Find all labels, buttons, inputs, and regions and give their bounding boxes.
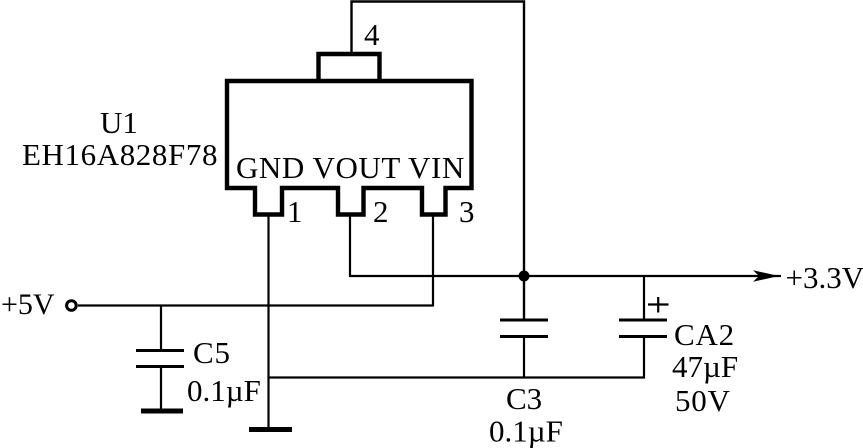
+5V input terminal circle <box>67 301 77 311</box>
wire CA2 top stub <box>643 276 645 319</box>
svg-text:4: 4 <box>364 17 380 52</box>
svg-text:+5V: +5V <box>1 288 55 321</box>
svg-text:C3: C3 <box>506 381 542 416</box>
svg-text:EH16A828F78: EH16A828F78 <box>22 137 218 172</box>
svg-text:3: 3 <box>459 194 475 229</box>
svg-text:0.1µF: 0.1µF <box>187 373 261 408</box>
svg-text:47µF: 47µF <box>672 349 738 384</box>
wire C3 bottom stub <box>523 338 525 378</box>
svg-text:U1: U1 <box>100 105 138 140</box>
wire pin2 VOUT down and right to +3.3V arrow <box>350 214 781 276</box>
ground symbol C5 <box>141 409 183 414</box>
svg-text:50V: 50V <box>675 383 731 418</box>
svg-text:CA2: CA2 <box>674 317 735 352</box>
wire pin3 VIN down to +5V rail <box>432 214 434 307</box>
op-amp U1 body EH16A828F78 with pin notches <box>227 81 472 215</box>
wire pin1 GND down to ground <box>267 214 269 427</box>
svg-text:1: 1 <box>287 194 303 229</box>
wire pin4 tab to top rail and down to VOUT node <box>352 2 525 319</box>
wire C5 bottom stub <box>160 367 162 409</box>
svg-text:C5: C5 <box>193 335 231 370</box>
arrow head +3.3V output <box>753 270 779 281</box>
svg-text:0.1µF: 0.1µF <box>489 414 563 448</box>
capacitor CA2 electrolytic <box>619 320 667 337</box>
svg-text:2: 2 <box>373 194 389 229</box>
wire +5V rail to VIN <box>78 304 433 306</box>
ground symbol main <box>249 427 292 432</box>
svg-text:GND VOUT VIN: GND VOUT VIN <box>236 150 465 185</box>
capacitor C3 <box>500 320 548 337</box>
capacitor C5 <box>136 351 184 367</box>
svg-text:+3.3V: +3.3V <box>786 260 863 295</box>
wire C5 top stub <box>160 306 162 350</box>
node VOUT junction dot <box>519 271 530 282</box>
wire CA2 bottom stub and bottom rail to ground line <box>269 338 644 378</box>
op-amp U1 tab pin 4 <box>319 54 380 82</box>
CA2 polarity plus sign <box>648 297 669 313</box>
